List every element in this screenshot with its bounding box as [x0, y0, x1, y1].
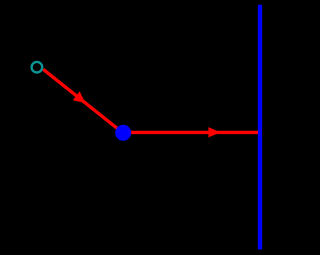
wire: red horizontal line from blue node to blue plate — [123, 131, 258, 134]
wire: red diagonal line from source circle to blue node — [43, 69, 123, 133]
arrowhead on diagonal line — [73, 91, 85, 103]
node: small teal circle (start marker) — [32, 62, 43, 73]
arrowhead on horizontal line — [208, 127, 220, 137]
blue vertical plate at right — [258, 5, 262, 250]
node: blue filled dot (junction) — [115, 125, 131, 141]
